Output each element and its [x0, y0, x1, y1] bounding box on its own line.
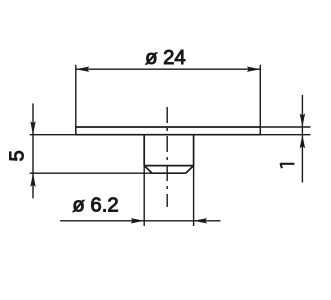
dimension line thickness 1	[301, 95, 303, 183]
extension line lower for height 5	[30, 172, 153, 174]
stem left side	[143, 135, 145, 166]
svg-text:5: 5	[7, 150, 29, 161]
svg-text:ø 6.2: ø 6.2	[72, 195, 118, 217]
stem right side	[193, 135, 195, 166]
extension line upper for height 5	[30, 134, 76, 136]
arrowhead bottom of height 5	[30, 173, 35, 187]
flange right edge	[259, 126, 261, 135]
flange bottom edge	[76, 134, 260, 136]
extension line left for diameter 24	[75, 65, 77, 127]
stem chamfer shoulder line	[144, 165, 193, 167]
dimension line diameter 6.2	[60, 220, 220, 222]
arrowhead left of diameter 24	[76, 67, 90, 72]
flange left edge	[75, 126, 77, 135]
stem right chamfer	[186, 166, 194, 174]
arrowhead right of diameter 24	[247, 67, 260, 72]
dimension line diameter 24	[76, 68, 260, 70]
arrowhead top of thickness 1	[300, 114, 305, 128]
arrowhead right of diameter 6.2	[194, 218, 208, 223]
flange top edge	[76, 126, 260, 128]
stem bottom edge	[152, 172, 186, 174]
arrowhead bottom of thickness 1	[300, 135, 305, 149]
label 1	[280, 163, 294, 168]
centerline	[166, 107, 168, 207]
dimension line height 5	[32, 103, 34, 198]
arrowhead left of diameter 6.2	[131, 218, 145, 223]
extension line right for diameter 6.2	[193, 166, 195, 226]
extension line right for diameter 24	[259, 65, 261, 127]
stem left chamfer	[144, 166, 152, 174]
extension line lower for thickness 1	[260, 134, 310, 136]
arrowhead top of height 5	[30, 121, 35, 135]
svg-text:ø 24: ø 24	[145, 47, 186, 69]
extension line upper for thickness 1	[260, 126, 310, 128]
extension line left for diameter 6.2	[143, 166, 145, 226]
